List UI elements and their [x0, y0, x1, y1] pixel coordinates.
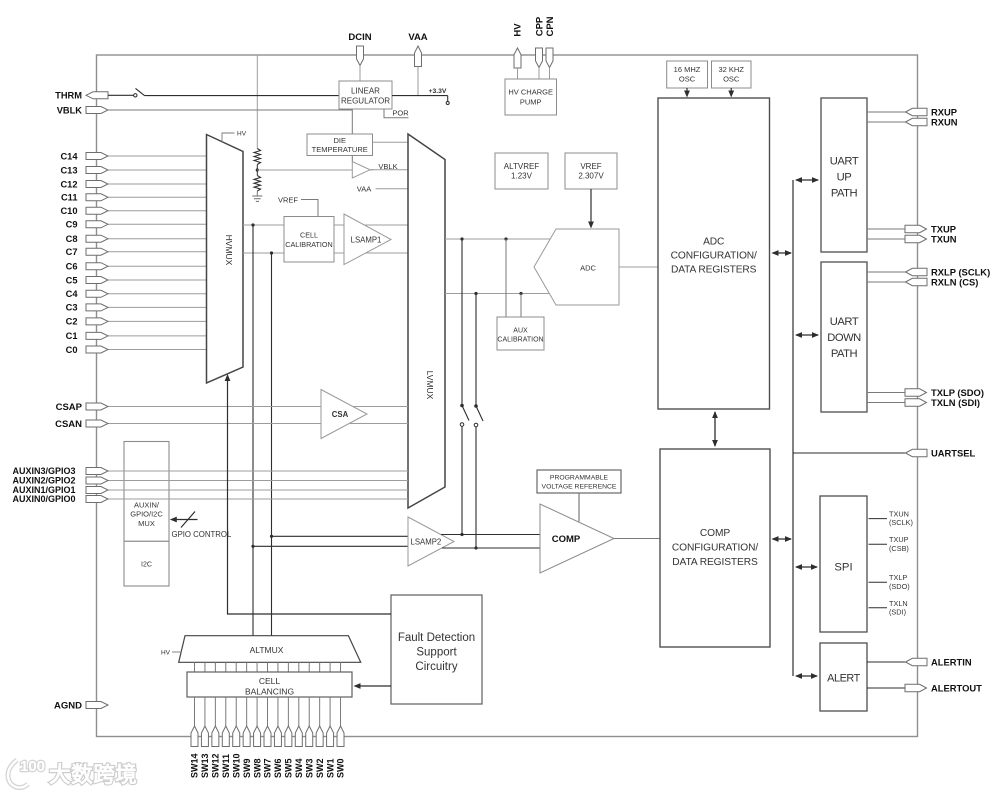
svg-text:RXUN: RXUN	[931, 116, 958, 127]
wire: LVMUX to ADC (upper)	[445, 238, 551, 240]
drop wire to aux calibration 1	[505, 239, 507, 317]
node aux-cal upper	[504, 237, 507, 240]
pin AUXIN1/GPIO1 with wire to LVMUX	[108, 489, 408, 491]
pin C1 with wire to HVMUX	[108, 335, 207, 337]
svg-text:ADC: ADC	[580, 264, 596, 273]
pin RXUP with wire	[867, 111, 906, 113]
pin TXLP (SDO) with wire	[867, 392, 907, 394]
pin SW8	[254, 726, 261, 747]
double arrow: bus to UART down	[796, 334, 818, 336]
HV label on ALTMUX	[172, 651, 182, 653]
VREF reference	[565, 153, 617, 189]
wires: CSA to LVMUX	[353, 406, 408, 408]
wire: LVMUX to ADC (lower)	[445, 293, 551, 295]
drop wire to aux calibration 2	[520, 294, 522, 318]
pin SW1	[327, 726, 334, 747]
svg-text:SW9: SW9	[242, 758, 252, 778]
node on LSAMP2 upper output	[460, 533, 463, 536]
svg-text:C2: C2	[66, 317, 78, 327]
GPIO control arrow with bus slash	[176, 519, 198, 521]
svg-text:C14: C14	[60, 151, 78, 161]
svg-text:VREF: VREF	[278, 195, 298, 204]
chip outline	[97, 55, 918, 737]
svg-text:RXLN (CS): RXLN (CS)	[931, 276, 978, 287]
svg-text:THRM: THRM	[55, 91, 82, 101]
svg-text:LSAMP2: LSAMP2	[411, 537, 442, 546]
fault detection support circuitry	[391, 595, 482, 704]
svg-text:32 KHZ: 32 KHZ	[718, 65, 744, 74]
UART down path	[821, 262, 867, 412]
pin CSAP with wire	[108, 406, 321, 408]
ADC configuration / data registers	[658, 98, 770, 409]
cell balancing	[187, 672, 352, 697]
svg-text:C3: C3	[66, 303, 78, 313]
svg-text:VREF: VREF	[580, 162, 601, 171]
pin C8 with wire to HVMUX	[108, 238, 207, 240]
pin TXUN with wire	[867, 238, 907, 240]
ALTMUX	[179, 636, 361, 663]
double arrow: bus to ALERT	[796, 675, 817, 677]
svg-text:MUX: MUX	[138, 519, 155, 528]
svg-text:CELL: CELL	[259, 676, 281, 686]
svg-text:(SCLK): (SCLK)	[889, 518, 913, 527]
svg-text:LINEAR: LINEAR	[351, 86, 380, 95]
SPI signal TXLP (SDO)	[869, 581, 888, 583]
svg-text:C8: C8	[66, 234, 78, 244]
SPI block	[820, 496, 867, 632]
pin C10 with wire to HVMUX	[108, 210, 207, 212]
switch S1	[460, 404, 464, 408]
svg-text:C0: C0	[66, 345, 78, 355]
UART up path	[821, 98, 867, 252]
wire: VBLK pin to VBLK buffer	[108, 110, 352, 162]
svg-text:Circuitry: Circuitry	[415, 661, 457, 673]
svg-text:SW7: SW7	[263, 758, 273, 778]
svg-text:SW13: SW13	[200, 753, 210, 778]
node on upper cell-cal wire	[251, 223, 254, 226]
op-amp LSAMP2	[408, 517, 454, 566]
svg-text:AUXIN3/GPIO3: AUXIN3/GPIO3	[12, 466, 75, 476]
wire: VAA pin down to +3.3V rail	[417, 67, 419, 96]
pin C11 with wire to HVMUX	[108, 196, 207, 198]
node on lower ADC wire	[474, 292, 477, 295]
ADC	[534, 229, 619, 305]
aux calibration	[497, 317, 544, 350]
pin C2 with wire to HVMUX	[108, 320, 207, 322]
svg-text:C6: C6	[66, 262, 78, 272]
pin CPN	[546, 48, 553, 68]
pin C6 with wire to HVMUX	[108, 265, 207, 267]
svg-text:UART: UART	[830, 316, 859, 328]
LVMUX	[408, 134, 445, 508]
wires: cell balancing to SW pins	[194, 697, 196, 726]
svg-text:COMP: COMP	[552, 534, 581, 545]
svg-text:(SDI): (SDI)	[889, 607, 906, 616]
ALERT block	[820, 643, 867, 711]
pin C4 with wire to HVMUX	[108, 293, 207, 295]
arrow: 32kHz osc to registers	[730, 88, 732, 95]
switch S2	[474, 404, 478, 408]
pin C0 with wire to HVMUX	[108, 349, 207, 351]
svg-text:(CSB): (CSB)	[889, 544, 909, 553]
SPI signal TXUN (SCLK)	[869, 518, 888, 520]
svg-text:LVMUX: LVMUX	[425, 371, 435, 400]
SPI signal TXUP (CSB)	[869, 543, 888, 545]
pin SW9	[243, 726, 250, 747]
svg-text:SW8: SW8	[252, 758, 262, 778]
wire: prog reference into COMP	[578, 493, 580, 522]
node: divider tap	[256, 168, 259, 171]
svg-text:DOWN: DOWN	[827, 332, 861, 344]
svg-text:C12: C12	[60, 179, 77, 189]
svg-text:DIE: DIE	[333, 136, 346, 145]
svg-text:CPP: CPP	[535, 16, 546, 36]
svg-text:C11: C11	[61, 193, 78, 203]
pin TXLN (SDI) with wire	[867, 402, 907, 404]
pin SW12	[212, 726, 219, 747]
pin C12 with wire to HVMUX	[108, 183, 207, 185]
double arrow: ADC config to COMP config	[714, 412, 716, 446]
svg-text:PATH: PATH	[831, 348, 858, 360]
pin SW13	[201, 726, 208, 747]
arrow: VREF to ADC	[590, 189, 592, 226]
pin SW10	[233, 726, 240, 747]
svg-text:AUX: AUX	[513, 327, 528, 334]
svg-text:SW1: SW1	[325, 758, 335, 778]
svg-text:REGULATOR: REGULATOR	[341, 96, 390, 105]
svg-text:I2C: I2C	[141, 561, 152, 568]
svg-text:Fault Detection: Fault Detection	[398, 632, 475, 644]
svg-text:SW5: SW5	[284, 758, 294, 778]
wire: HVMUX to cell calibration (upper)	[243, 224, 284, 226]
wires: LSAMP1 to LVMUX	[364, 224, 408, 226]
svg-text:GPIO/I2C: GPIO/I2C	[130, 510, 163, 519]
pin RXLN (CS) with wire	[867, 281, 906, 283]
wire: die temperature to LVMUX	[373, 141, 409, 143]
pin HV	[514, 48, 521, 68]
svg-text:HV: HV	[161, 650, 171, 657]
svg-text:UART: UART	[830, 155, 859, 167]
wires: HV CPP CPN into charge pump	[517, 68, 519, 79]
pin SW11	[222, 726, 229, 747]
svg-text:CALIBRATION: CALIBRATION	[285, 240, 332, 249]
svg-text:PUMP: PUMP	[520, 98, 542, 107]
wire: COMP to comp config registers	[614, 538, 660, 540]
double arrow: COMP config to bus	[773, 538, 792, 540]
switch drop wire x462 upper	[461, 239, 463, 404]
pin DCIN	[357, 46, 364, 66]
node on upper ADC wire	[460, 237, 463, 240]
wire: ADC to ADC config registers	[619, 266, 658, 268]
16 MHz oscillator	[667, 61, 708, 88]
COMP configuration / data registers	[660, 449, 770, 647]
pin ALERTOUT with wire	[867, 687, 907, 689]
pin C3 with wire to HVMUX	[108, 306, 207, 308]
pin VBLK	[86, 107, 108, 114]
node on lower cell-cal wire	[270, 251, 273, 254]
arrow: fault detection to cell balancing	[356, 685, 391, 687]
HVMUX	[207, 135, 244, 384]
linear regulator	[339, 81, 392, 109]
svg-text:UARTSEL: UARTSEL	[931, 447, 976, 458]
POR output	[384, 109, 409, 118]
svg-text:CELL: CELL	[300, 230, 318, 239]
switch drop wire x476 lower	[475, 427, 477, 548]
svg-text:SW12: SW12	[211, 753, 221, 778]
svg-text:C4: C4	[66, 289, 79, 299]
pin C5 with wire to HVMUX	[108, 279, 207, 281]
svg-text:SW0: SW0	[336, 758, 346, 778]
svg-text:16 MHZ: 16 MHZ	[674, 65, 701, 74]
svg-text:SW10: SW10	[231, 753, 241, 778]
pin SW6	[274, 726, 281, 747]
svg-text:CSA: CSA	[332, 410, 349, 419]
svg-text:OSC: OSC	[679, 74, 696, 83]
svg-text:ALTMUX: ALTMUX	[250, 645, 284, 655]
svg-text:GPIO CONTROL: GPIO CONTROL	[172, 530, 232, 539]
svg-text:C7: C7	[66, 247, 78, 257]
vertical sense wire x253 down to ALTMUX	[252, 225, 254, 636]
svg-text:C10: C10	[60, 206, 77, 216]
resistor R2 (HV divider bottom)	[256, 170, 258, 176]
wire: VBLK buffer to LVMUX	[370, 169, 408, 171]
wire R1 to tap	[256, 165, 258, 171]
pin RXLP (SCLK) with wire	[867, 271, 906, 273]
switch drop wire x462 lower	[461, 426, 463, 534]
svg-text:AUXIN2/GPIO2: AUXIN2/GPIO2	[12, 476, 75, 486]
pin C7 with wire to HVMUX	[108, 251, 207, 253]
svg-text:大数跨境: 大数跨境	[49, 762, 137, 787]
svg-text:VOLTAGE REFERENCE: VOLTAGE REFERENCE	[542, 483, 617, 490]
programmable voltage reference	[537, 470, 621, 493]
wire: DCIN to linear regulator	[359, 66, 361, 82]
VBLK buffer amplifier	[352, 162, 370, 179]
wires: cell calibration to LSAMP1	[334, 224, 344, 226]
node on LSAMP2 lower output	[474, 546, 477, 549]
svg-text:TXLN (SDI): TXLN (SDI)	[931, 397, 980, 408]
pin CPP	[536, 48, 543, 68]
wire: LSAMP2 to COMP (upper)	[441, 534, 540, 536]
pin SW2	[316, 726, 323, 747]
svg-text:TXUN: TXUN	[931, 233, 957, 244]
svg-text:BALANCING: BALANCING	[245, 687, 294, 697]
svg-text:CONFIGURATION/: CONFIGURATION/	[671, 251, 757, 262]
svg-text:ADC: ADC	[703, 237, 724, 248]
vertical sense wire x271 down to ALTMUX	[271, 253, 273, 636]
svg-text:ALERTOUT: ALERTOUT	[931, 682, 982, 693]
32 kHz oscillator	[712, 61, 752, 88]
cell calibration	[284, 217, 334, 263]
pin C13 with wire to HVMUX	[108, 169, 207, 171]
svg-text:HV: HV	[237, 131, 247, 138]
wire: x253 tap to LSAMP2 (lower input)	[253, 545, 408, 547]
pin VAA	[415, 46, 422, 67]
wire: top rail down to HV resistor divider	[256, 55, 258, 149]
svg-text:ALERT: ALERT	[827, 673, 860, 685]
die temperature sensor	[307, 134, 373, 156]
pin SW5	[285, 726, 292, 747]
svg-text:SPI: SPI	[834, 562, 852, 574]
svg-text:AUXIN0/GPIO0: AUXIN0/GPIO0	[12, 494, 75, 504]
svg-text:CSAP: CSAP	[56, 402, 83, 413]
svg-text:CSAN: CSAN	[55, 419, 82, 430]
pin AUXIN2/GPIO2 with wire to LVMUX	[108, 480, 408, 482]
svg-text:PROGRAMMABLE: PROGRAMMABLE	[550, 474, 609, 481]
current sense amplifier CSA	[321, 390, 367, 439]
svg-text:CONFIGURATION/: CONFIGURATION/	[672, 543, 758, 554]
svg-text:100: 100	[20, 758, 45, 775]
double arrow: ADC config to bus	[773, 252, 792, 254]
svg-text:2.307V: 2.307V	[578, 171, 604, 180]
SPI signal TXLN (SDI)	[869, 607, 888, 609]
op-amp LSAMP1	[344, 214, 391, 265]
svg-text:PATH: PATH	[831, 187, 858, 199]
svg-text:AGND: AGND	[54, 700, 82, 711]
pin AGND	[86, 702, 108, 709]
comparator COMP	[540, 504, 614, 573]
wire: switch to linear regulator	[145, 95, 340, 97]
pin SW0	[337, 726, 344, 747]
arrow: 16MHz osc to registers	[686, 88, 688, 95]
wire: x271 tap to LSAMP2 (upper input)	[272, 535, 409, 537]
pin C14 with wire to HVMUX	[108, 155, 207, 157]
svg-text:C5: C5	[66, 275, 78, 285]
svg-text:(SDO): (SDO)	[889, 582, 910, 591]
ALTVREF reference	[495, 153, 548, 189]
pin UARTSEL with wire from bus	[793, 452, 906, 454]
svg-text:ALERTIN: ALERTIN	[931, 656, 972, 667]
svg-text:DATA REGISTERS: DATA REGISTERS	[671, 265, 757, 276]
svg-text:VAA: VAA	[357, 185, 371, 194]
pin RXUN with wire	[867, 121, 906, 123]
wire: HVMUX to cell calibration (lower)	[243, 252, 284, 254]
double arrow: bus to UART up	[796, 179, 818, 181]
switch on THRM input	[108, 94, 134, 96]
svg-text:SW6: SW6	[273, 758, 283, 778]
pin THRM	[86, 92, 108, 99]
pin TXUP with wire	[867, 228, 907, 230]
svg-text:1.23V: 1.23V	[511, 171, 533, 180]
pin ALERTIN with wire	[867, 661, 906, 663]
wires: ALTMUX to cell balancing	[194, 662, 196, 672]
svg-text:C9: C9	[66, 220, 78, 230]
I2C block	[124, 541, 169, 586]
svg-text:DCIN: DCIN	[348, 32, 371, 43]
svg-text:HVMUX: HVMUX	[224, 235, 234, 266]
+3.3V net	[392, 95, 448, 97]
svg-text:CALIBRATION: CALIBRATION	[497, 336, 543, 343]
pin CSAN with wire	[108, 423, 321, 425]
svg-text:ALTVREF: ALTVREF	[504, 162, 540, 171]
pin SW3	[306, 726, 313, 747]
svg-text:VBLK: VBLK	[57, 105, 83, 115]
wire: LSAMP2 to COMP (lower)	[442, 547, 540, 549]
watermark logo and text	[8, 758, 137, 788]
svg-text:TEMPERATURE: TEMPERATURE	[312, 145, 368, 154]
internal bus line	[792, 180, 794, 676]
double arrow: bus to SPI	[796, 566, 817, 568]
svg-text:SW11: SW11	[221, 754, 231, 778]
pin SW14	[191, 726, 198, 747]
svg-text:C13: C13	[60, 165, 77, 175]
wire: divider tap to VBLK buffer	[257, 169, 352, 171]
svg-text:VAA: VAA	[408, 32, 427, 43]
svg-text:C1: C1	[66, 331, 78, 341]
wire R2 to ground	[256, 191, 258, 196]
HV tap label on HVMUX	[222, 133, 235, 142]
svg-text:SW2: SW2	[315, 758, 325, 778]
svg-text:SW3: SW3	[304, 758, 314, 778]
pin AUXIN3/GPIO3 with wire to LVMUX	[108, 470, 408, 472]
resistor R1 (HV divider top)	[254, 149, 260, 165]
switch drop wire x476 upper	[475, 294, 477, 405]
svg-text:DATA REGISTERS: DATA REGISTERS	[672, 557, 758, 568]
svg-text:AUXIN/: AUXIN/	[134, 500, 160, 509]
AUXIN/GPIO/I2C mux	[124, 442, 169, 542]
node aux-cal lower	[519, 292, 522, 295]
pin SW7	[264, 726, 271, 747]
HV charge pump	[505, 79, 557, 115]
svg-text:CPN: CPN	[545, 16, 556, 36]
svg-text:LSAMP1: LSAMP1	[351, 235, 382, 244]
svg-text:UP: UP	[837, 171, 852, 183]
svg-text:HV CHARGE: HV CHARGE	[508, 88, 553, 97]
pin SW4	[295, 726, 302, 747]
pin AUXIN0/GPIO0 with wire to LVMUX	[108, 498, 408, 500]
svg-text:HV: HV	[513, 23, 524, 37]
svg-text:COMP: COMP	[700, 528, 730, 539]
wire: fault detection to HVMUX select	[228, 377, 392, 615]
svg-text:POR: POR	[392, 109, 409, 118]
svg-text:SW4: SW4	[294, 758, 304, 778]
svg-text:SW14: SW14	[190, 753, 200, 778]
ground	[252, 195, 262, 197]
svg-text:OSC: OSC	[723, 74, 740, 83]
pin C9 with wire to HVMUX	[108, 223, 207, 225]
svg-text:Support: Support	[416, 647, 457, 659]
svg-text:+3.3V: +3.3V	[429, 88, 447, 95]
